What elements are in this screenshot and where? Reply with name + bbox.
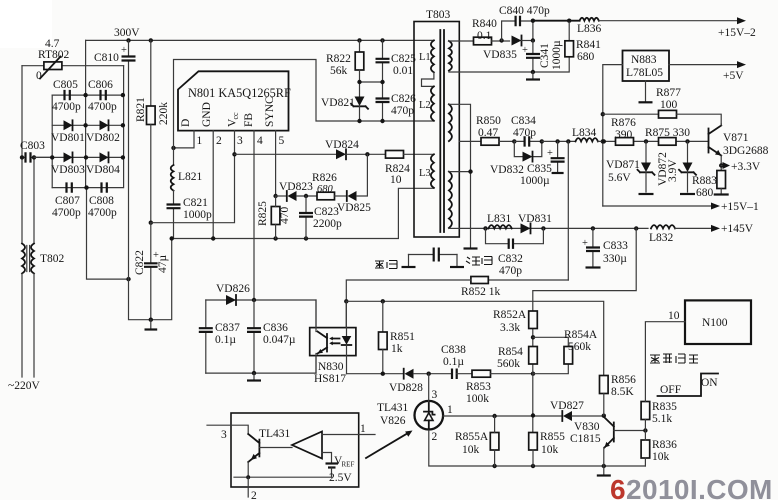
- node R855 riser: [531, 413, 535, 417]
- wire VD828 line: [347, 373, 404, 375]
- svg-text:390: 390: [615, 129, 633, 141]
- svg-text:47µ: 47µ: [157, 255, 169, 274]
- svg-text:C1815: C1815: [570, 433, 601, 445]
- svg-text:0.47: 0.47: [478, 127, 498, 139]
- svg-text:VD824: VD824: [325, 139, 359, 151]
- node 300V-R822: [357, 38, 361, 42]
- wire opto collector riser: [315, 300, 317, 328]
- svg-text:TL431: TL431: [377, 402, 409, 414]
- diode VD804: [86, 152, 120, 176]
- svg-text:4700p: 4700p: [88, 101, 117, 113]
- wire hot ground bus: [172, 188, 434, 238]
- svg-text:+: +: [547, 148, 553, 159]
- pin 4: [253, 131, 255, 300]
- arrow +3.3V: [721, 165, 722, 167]
- riser 145V sense: [533, 228, 636, 311]
- ground symbol: [150, 320, 152, 328]
- svg-text:1: 1: [360, 423, 366, 435]
- output pin1: [322, 434, 375, 436]
- svg-text:3: 3: [237, 135, 243, 147]
- capacitor C835 electrolytic: [520, 141, 565, 187]
- svg-text:2: 2: [251, 490, 257, 500]
- node S3 top joins riser: [468, 169, 472, 173]
- wire opto emitter riser: [315, 356, 317, 374]
- vref: [322, 453, 332, 464]
- node V871 emitter: [719, 163, 723, 167]
- diode VD827: [550, 400, 604, 421]
- svg-text:470p: 470p: [499, 265, 522, 277]
- pin 3: [234, 131, 236, 155]
- diode VD872 zener: [657, 141, 696, 194]
- node R840-VD835-C840: [499, 38, 503, 42]
- diode VD832 parallel: [490, 141, 542, 176]
- capacitor Y-cap between grounds: [402, 248, 465, 268]
- svg-text:C832: C832: [498, 253, 523, 265]
- wire riser to R852 line: [567, 141, 569, 280]
- node R841 top: [567, 19, 571, 23]
- svg-text:6: 6: [610, 474, 626, 500]
- resistor R876: [611, 117, 636, 145]
- wire left bridge bus: [51, 95, 53, 188]
- capacitor C833 electrolytic: [582, 228, 628, 267]
- svg-text:R877: R877: [656, 87, 681, 99]
- svg-text:R821: R821: [135, 97, 147, 122]
- svg-text:+145V: +145V: [721, 223, 754, 235]
- node emitter ground: [602, 464, 606, 468]
- svg-text:C805: C805: [53, 79, 78, 91]
- resistor R840: [472, 18, 510, 45]
- svg-text:R852 1k: R852 1k: [461, 286, 501, 298]
- node R821-C822-Vcc: [149, 221, 153, 225]
- node rail riser: [601, 139, 605, 143]
- wire bridge row2: [52, 124, 123, 126]
- svg-text:+: +: [121, 45, 127, 56]
- wire TL431 pin3: [428, 374, 430, 402]
- label standby control 待机控制: [650, 354, 698, 363]
- node grid: [83, 93, 87, 97]
- capacitor C825: [376, 40, 417, 98]
- diode VD803: [51, 152, 85, 176]
- svg-text:470: 470: [279, 207, 291, 225]
- svg-text:L2: L2: [419, 100, 431, 111]
- node pin3 junction: [232, 152, 236, 156]
- pin 2: [212, 131, 214, 239]
- wire R851 feed bus: [346, 301, 603, 375]
- svg-text:4: 4: [257, 135, 263, 147]
- svg-text:+5V: +5V: [723, 70, 744, 82]
- capacitor C826: [376, 93, 417, 121]
- svg-text:N100: N100: [702, 317, 728, 329]
- arrow +15V-2: [737, 17, 746, 24]
- capacitor C823: [299, 196, 342, 239]
- node midbus joins C810 line: [126, 277, 130, 281]
- thermistor RT802: [22, 38, 124, 82]
- svg-text:D: D: [180, 119, 192, 127]
- capacitor C836: [247, 300, 296, 373]
- svg-text:R851: R851: [390, 331, 415, 343]
- wire right AC line: [33, 157, 35, 243]
- svg-text:~220V: ~220V: [8, 380, 40, 392]
- svg-text:L1: L1: [419, 52, 431, 63]
- svg-text:C840 470p: C840 470p: [499, 5, 550, 17]
- wire rail: [542, 140, 576, 142]
- internal transistor: [258, 440, 260, 457]
- inductor L834: [572, 127, 709, 141]
- svg-text:R853: R853: [466, 381, 491, 393]
- svg-text:330µ: 330µ: [603, 253, 627, 265]
- resistor R822: [326, 40, 364, 96]
- svg-text:3DG2688: 3DG2688: [723, 145, 769, 157]
- svg-text:V826: V826: [380, 415, 406, 427]
- node 300V-C810: [126, 38, 130, 42]
- transformer T803 box: [414, 22, 459, 238]
- pin 1: [174, 131, 195, 148]
- svg-text:1k: 1k: [391, 343, 403, 355]
- svg-text:R876: R876: [611, 117, 636, 129]
- optocoupler N830: [310, 328, 356, 385]
- resistor R877: [603, 87, 721, 124]
- svg-text:R850: R850: [476, 115, 501, 127]
- diode VD835: [483, 36, 533, 62]
- capacitor C837: [199, 300, 240, 373]
- capacitor C803: [20, 140, 52, 163]
- svg-text:VD825: VD825: [337, 202, 371, 214]
- svg-text:VD826: VD826: [216, 283, 250, 295]
- svg-text:T802: T802: [40, 253, 65, 265]
- svg-text:R854A: R854A: [564, 329, 598, 341]
- wire cold ground riser from S2/S3: [449, 104, 471, 247]
- wire LED anode riser: [345, 301, 347, 327]
- svg-text:VD801: VD801: [51, 132, 85, 144]
- resistor R841: [565, 21, 601, 63]
- svg-text:GND: GND: [201, 102, 213, 127]
- svg-text:N830: N830: [318, 361, 344, 373]
- svg-text:VD803: VD803: [51, 164, 85, 176]
- svg-text:4700p: 4700p: [88, 207, 117, 219]
- svg-text:+3.3V: +3.3V: [731, 161, 761, 173]
- node C834 left: [512, 139, 516, 143]
- resistor R883: [692, 171, 729, 200]
- capacitor C810 electrolytic: [94, 40, 136, 279]
- svg-text:C835: C835: [527, 163, 552, 175]
- wire +15V-1: [603, 205, 711, 207]
- pin 5: [275, 131, 277, 196]
- wire N883 input riser: [603, 65, 623, 206]
- svg-text:C823: C823: [314, 206, 339, 218]
- svg-text:L836: L836: [577, 23, 602, 35]
- wire S3 bottom out: [449, 227, 459, 229]
- resistor R855: [529, 431, 565, 466]
- svg-text:VD823: VD823: [279, 181, 313, 193]
- regulator N883: [623, 51, 670, 82]
- ground under N883: [645, 81, 647, 101]
- node L831 left: [483, 226, 487, 230]
- svg-text:C822: C822: [134, 250, 146, 275]
- resistor R851: [379, 301, 416, 373]
- svg-text:10k: 10k: [462, 444, 480, 456]
- wire Vcc line: [235, 153, 337, 155]
- svg-text:470p: 470p: [513, 127, 536, 139]
- ground at V830 emitter: [603, 466, 605, 474]
- inductor L832: [649, 225, 711, 244]
- svg-text:VD831: VD831: [518, 213, 552, 225]
- node 145V riser: [634, 226, 638, 230]
- switch OFF/ON: [658, 374, 719, 397]
- jog L1-L2: [422, 72, 434, 86]
- svg-text:10: 10: [390, 174, 402, 186]
- svg-text:0.1µ: 0.1µ: [215, 334, 236, 346]
- inductor L831: [487, 213, 512, 228]
- svg-text:cc: cc: [231, 112, 240, 120]
- svg-text:C837: C837: [215, 322, 240, 334]
- svg-text:2200p: 2200p: [313, 218, 342, 230]
- node R855A top: [492, 414, 496, 418]
- node VD827-R856-V830: [602, 414, 606, 418]
- wire 145V line: [459, 227, 648, 229]
- svg-text:680: 680: [577, 51, 595, 63]
- svg-text:10k: 10k: [541, 444, 559, 456]
- svg-text:1: 1: [197, 135, 203, 147]
- wire S1 top rail: [449, 40, 474, 42]
- svg-text:0: 0: [36, 70, 42, 82]
- svg-text:OFF: OFF: [660, 384, 681, 396]
- svg-text:C803: C803: [20, 140, 45, 152]
- core: [440, 30, 444, 232]
- svg-text:8.5K: 8.5K: [611, 386, 634, 398]
- svg-text:+: +: [582, 238, 588, 249]
- wire TL431 pin1 line: [443, 415, 562, 417]
- svg-text:R841: R841: [576, 39, 601, 51]
- svg-text:3.9V: 3.9V: [667, 159, 679, 182]
- svg-text:2: 2: [432, 431, 438, 443]
- svg-text:5.6V: 5.6V: [608, 172, 631, 184]
- svg-text:R883: R883: [692, 175, 717, 187]
- wire main 15V rail: [459, 140, 481, 142]
- winding S1: [449, 41, 452, 71]
- IC N100: [645, 300, 751, 401]
- svg-text:C833: C833: [603, 240, 628, 252]
- node TL431 ref: [427, 372, 431, 376]
- label cold ground 冷地: [466, 257, 492, 266]
- watermark: [610, 474, 773, 500]
- capacitor C832 parallel loop: [486, 228, 544, 277]
- capacitor C821: [167, 191, 213, 239]
- svg-text:L3: L3: [419, 168, 431, 179]
- svg-text:C806: C806: [88, 79, 113, 91]
- wire AC lines to bottom: [22, 274, 34, 378]
- transformer T802 common mode choke: [22, 244, 65, 274]
- node C835 top: [555, 139, 559, 143]
- node R855A bottom: [492, 464, 496, 468]
- svg-text:56k: 56k: [330, 65, 348, 77]
- capacitor C808: [88, 182, 117, 219]
- svg-text:VD871: VD871: [606, 159, 640, 171]
- svg-text:VD802: VD802: [86, 132, 120, 144]
- svg-text:VD804: VD804: [86, 164, 120, 176]
- TL431 circle V826: [377, 389, 453, 443]
- svg-text:5.1k: 5.1k: [652, 413, 672, 425]
- winding S2: [449, 104, 452, 141]
- svg-text:+15V–1: +15V–1: [721, 201, 759, 213]
- bottom internal wire: [234, 476, 332, 478]
- svg-text:R875 330: R875 330: [645, 127, 690, 139]
- node R852 riser top: [566, 139, 570, 143]
- svg-text:R852A: R852A: [493, 309, 527, 321]
- resistor R854: [497, 346, 537, 370]
- wire 300V rail: [86, 39, 434, 41]
- node VD872 top: [685, 139, 689, 143]
- svg-text:1000µ: 1000µ: [551, 40, 563, 70]
- diode VD821 zener: [321, 97, 368, 122]
- capacitor C807: [52, 182, 81, 219]
- svg-text:VD821: VD821: [321, 97, 355, 109]
- svg-text:V830: V830: [574, 421, 600, 433]
- node C836 ground: [252, 371, 256, 375]
- svg-text:100: 100: [660, 99, 678, 111]
- wire bridge row3: [34, 156, 123, 158]
- diode VD824: [325, 139, 359, 159]
- svg-text:C341: C341: [539, 43, 551, 68]
- svg-text:HS817: HS817: [314, 373, 346, 385]
- inductor L836: [533, 18, 737, 35]
- svg-text:560k: 560k: [497, 358, 520, 370]
- capacitor C840 parallel branch: [499, 5, 550, 41]
- resistor R835: [641, 401, 677, 431]
- svg-text:3: 3: [432, 389, 438, 401]
- node R852 to LED anode: [344, 299, 348, 303]
- capacitor C806: [88, 79, 117, 113]
- svg-text:C836: C836: [263, 322, 288, 334]
- svg-text:1000p: 1000p: [183, 209, 212, 221]
- resistor R852A: [493, 309, 537, 334]
- svg-text:VD832: VD832: [490, 164, 524, 176]
- svg-text:2: 2: [216, 135, 222, 147]
- svg-text:C825: C825: [391, 53, 416, 65]
- svg-text:+: +: [522, 45, 528, 56]
- node R835-R836-base: [643, 428, 647, 432]
- svg-text:R854: R854: [498, 346, 523, 358]
- wire left AC line: [21, 66, 23, 244]
- diode VD802: [86, 120, 120, 144]
- svg-text:SYNC: SYNC: [264, 96, 276, 127]
- svg-text:100k: 100k: [466, 393, 489, 405]
- resistor R852: [346, 277, 568, 328]
- wire S1 bottom return: [449, 57, 569, 72]
- svg-text:V871: V871: [723, 132, 749, 144]
- node C834 right: [540, 139, 544, 143]
- resistor R825: [257, 196, 291, 239]
- svg-text:R855: R855: [540, 431, 565, 443]
- node R853-R854: [531, 372, 535, 376]
- resistor R850: [476, 115, 514, 145]
- node pin1: [171, 146, 175, 150]
- svg-text:220k: 220k: [158, 102, 170, 125]
- node C840 rail: [531, 19, 535, 23]
- svg-text:L78L05: L78L05: [626, 67, 663, 79]
- diode VD831: [518, 213, 552, 233]
- svg-text:VD835: VD835: [483, 49, 517, 61]
- transistor V871: [709, 124, 769, 171]
- svg-text:TL431: TL431: [259, 428, 291, 440]
- svg-text:VD827: VD827: [550, 400, 584, 412]
- resistor R836: [641, 431, 677, 467]
- resistor R875: [645, 127, 690, 145]
- svg-text:C810: C810: [94, 52, 119, 64]
- svg-text:680: 680: [317, 184, 334, 195]
- svg-text:R826: R826: [312, 172, 337, 184]
- node VD835-C341: [531, 38, 535, 42]
- node C833 top: [591, 226, 595, 230]
- svg-text:C838: C838: [441, 344, 466, 356]
- wire Vcc link: [151, 154, 235, 222]
- svg-text:L821: L821: [178, 171, 203, 183]
- divider chain risers: [532, 311, 534, 433]
- capacitor C838: [441, 344, 472, 379]
- svg-text:5: 5: [279, 135, 285, 147]
- svg-text:FB: FB: [243, 113, 255, 127]
- node L834 out: [602, 139, 606, 143]
- svg-text:1000µ: 1000µ: [520, 175, 550, 187]
- node R855 bottom: [531, 464, 535, 468]
- svg-text:REF: REF: [342, 461, 355, 469]
- svg-text:3.3k: 3.3k: [500, 322, 520, 334]
- node VD831 right: [541, 226, 545, 230]
- diode VD826: [216, 283, 250, 305]
- annotation arrow: [366, 433, 408, 458]
- svg-text:VD828: VD828: [389, 382, 423, 394]
- svg-text:L831: L831: [487, 213, 512, 225]
- svg-text:0.01: 0.01: [393, 65, 413, 77]
- node FB-C836: [252, 298, 256, 302]
- wire mid bus lower to C810 line: [87, 188, 129, 280]
- svg-text:4700p: 4700p: [52, 101, 81, 113]
- svg-text:1: 1: [447, 404, 453, 416]
- diode VD823: [276, 181, 317, 201]
- svg-text:4700p: 4700p: [52, 207, 81, 219]
- wire opto ground line: [206, 356, 316, 374]
- resistor R821: [135, 40, 170, 222]
- svg-text:R822: R822: [326, 53, 351, 65]
- label hot ground 热地 with ground bar: [375, 261, 397, 269]
- wire mid connector: [360, 81, 383, 83]
- svg-text:R835: R835: [652, 401, 677, 413]
- node 300V-R821: [149, 38, 153, 42]
- svg-text:0.047µ: 0.047µ: [263, 334, 296, 346]
- node pin5 sync: [273, 194, 277, 198]
- node R851 top: [381, 299, 385, 303]
- ground under C341: [532, 72, 534, 78]
- svg-text:L832: L832: [649, 232, 674, 244]
- svg-text:C826: C826: [391, 93, 416, 105]
- inductor L821: [171, 148, 203, 191]
- wire right bus: [123, 66, 125, 188]
- svg-text:R855A: R855A: [455, 431, 489, 443]
- ground symbol: [253, 373, 255, 379]
- capacitor C822 electrolytic: [134, 223, 169, 320]
- svg-text:C834: C834: [511, 115, 536, 127]
- svg-text:RT802: RT802: [38, 49, 70, 61]
- svg-text:2.5V: 2.5V: [329, 472, 352, 484]
- svg-text:3: 3: [221, 429, 227, 441]
- capacitor C341 electrolytic: [522, 40, 563, 72]
- svg-text:2010I.COM: 2010I.COM: [626, 474, 773, 500]
- svg-text:N883: N883: [631, 54, 657, 66]
- node R877 line: [601, 112, 605, 116]
- svg-text:R856: R856: [611, 374, 636, 386]
- svg-text:ON: ON: [701, 377, 718, 389]
- wire bridge row1: [52, 94, 123, 96]
- svg-text:C821: C821: [183, 197, 208, 209]
